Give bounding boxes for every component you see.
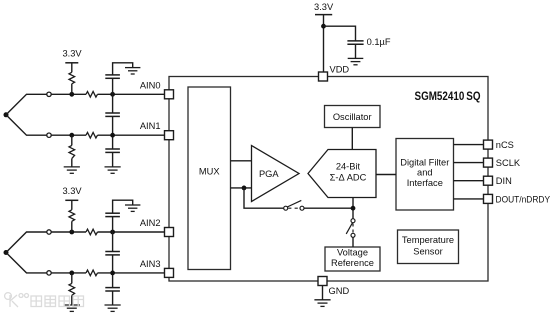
junction dot R-bias AIN0 bbox=[69, 92, 74, 97]
svg-text:AIN1: AIN1 bbox=[140, 121, 161, 131]
junction dot feedback node bbox=[242, 186, 247, 191]
open terminal circle AIN3 bbox=[47, 271, 51, 275]
capacitor C3 (AIN0-AIN1 differential) bbox=[105, 113, 120, 116]
junction dot R-bias AIN3 bbox=[69, 271, 74, 276]
ground (R8) bbox=[64, 305, 80, 311]
resistor R6 (bias to 3.3V) bbox=[69, 200, 75, 232]
capacitor C2 (AIN0 to gnd) bbox=[105, 75, 120, 78]
svg-text:Sensor: Sensor bbox=[413, 247, 442, 257]
svg-text:Interface: Interface bbox=[407, 178, 443, 188]
resistor R2 (bias to 3.3V) bbox=[69, 63, 75, 95]
ground (R4) bbox=[64, 167, 80, 173]
pin AIN2 bbox=[140, 218, 174, 237]
svg-text:3.3V: 3.3V bbox=[62, 48, 82, 58]
pin AIN1 bbox=[140, 121, 174, 140]
resistor R7 (series AIN3) bbox=[86, 270, 98, 276]
wire cap chain top to ground tap (upper) bbox=[113, 63, 133, 75]
wire AIN2 open circle to resistor bbox=[51, 231, 86, 233]
resistor R5 (series AIN2) bbox=[86, 229, 98, 235]
wire C4 to ground bbox=[112, 152, 114, 167]
wire SW1 to ADC bottom node bbox=[304, 207, 353, 209]
svg-text:SGM52410 SQ: SGM52410 SQ bbox=[415, 91, 481, 103]
pin SCLK bbox=[484, 158, 521, 168]
resistor R1 (series AIN0) bbox=[86, 92, 98, 98]
ground (GND pin) bbox=[314, 300, 330, 307]
wire ADC to Digital Filter bbox=[376, 174, 396, 176]
wire resistor to pin AIN3 bbox=[98, 272, 165, 274]
supply 3.3V (top, VDD) bbox=[314, 2, 334, 14]
wire AIN2 to C6 bbox=[112, 232, 114, 252]
wire GND pin to ground bbox=[322, 286, 324, 300]
wire tap to capacitor C1 bbox=[324, 26, 356, 41]
wire C7 to ground bbox=[112, 291, 114, 305]
wire resistor to pin AIN2 bbox=[98, 231, 165, 233]
junction dot R-bias AIN1 bbox=[69, 133, 74, 138]
wire Oscillator to ADC bbox=[351, 128, 353, 150]
IC outline U1 SGM52410SQ bbox=[169, 77, 488, 282]
wire AIN3 open circle to resistor bbox=[51, 272, 86, 274]
block MUX bbox=[188, 87, 231, 270]
ground (lower chain top) bbox=[125, 205, 140, 211]
resistor R8 (AIN3 to gnd) bbox=[69, 273, 75, 305]
wire input to AIN3 branch bbox=[6, 253, 47, 273]
capacitor C1 0.1uF bbox=[347, 37, 390, 47]
block Temperature Sensor bbox=[398, 230, 459, 264]
wire AIN3 to C7 bbox=[112, 273, 114, 288]
op-amp PGA bbox=[252, 146, 300, 202]
wire resistor to pin AIN0 bbox=[98, 93, 165, 95]
junction dot R-bias AIN2 bbox=[69, 230, 74, 235]
open terminal circle AIN2 bbox=[47, 230, 51, 234]
svg-text:Reference: Reference bbox=[331, 258, 374, 268]
pin DOUT/nDRDY bbox=[484, 194, 551, 204]
input terminal dot (AIN0/AIN1 pair) bbox=[4, 112, 9, 117]
svg-text:PGA: PGA bbox=[259, 169, 279, 179]
wire AIN1 open circle to resistor bbox=[51, 134, 86, 136]
junction dot cap chain AIN2 bbox=[110, 230, 115, 235]
capacitor C5 (AIN2 to gnd) bbox=[105, 213, 120, 216]
wire AIN0 open circle to resistor bbox=[51, 93, 86, 95]
wire capacitor C1 to ground bbox=[355, 44, 357, 58]
pin GND bbox=[318, 277, 349, 297]
wire AIN0 to C3 bbox=[112, 94, 114, 113]
svg-text:24-Bit: 24-Bit bbox=[336, 162, 361, 172]
svg-text:AIN3: AIN3 bbox=[140, 259, 161, 269]
svg-text:DOUT/nDRDY: DOUT/nDRDY bbox=[496, 194, 551, 204]
supply 3.3V (AIN2 bias) bbox=[62, 186, 82, 200]
svg-text:VDD: VDD bbox=[330, 65, 350, 75]
svg-text:MUX: MUX bbox=[199, 166, 220, 176]
wires Digital Filter to pins bbox=[454, 145, 484, 199]
ground (C4) bbox=[105, 167, 121, 173]
block Voltage Reference bbox=[325, 247, 380, 271]
wire AIN1 to C4 bbox=[112, 135, 114, 149]
svg-text:Voltage: Voltage bbox=[337, 247, 368, 257]
wire C2 to AIN0 bbox=[112, 78, 114, 94]
junction dot ADC bottom node bbox=[351, 206, 356, 211]
junction dot cap chain AIN3 bbox=[110, 271, 115, 276]
svg-text:Digital Filter: Digital Filter bbox=[400, 157, 449, 167]
wire input to AIN1 branch bbox=[6, 115, 47, 135]
wire ADC bottom bbox=[352, 198, 354, 219]
wire C6 to AIN3 bbox=[112, 255, 114, 273]
capacitor C4 (AIN1 to gnd) bbox=[105, 149, 120, 152]
switch SW2 (vertical) bbox=[346, 219, 355, 238]
wire resistor to pin AIN1 bbox=[98, 134, 165, 136]
svg-text:Oscillator: Oscillator bbox=[333, 112, 372, 122]
resistor R3 (series AIN1) bbox=[86, 132, 98, 138]
open terminal circle AIN1 bbox=[47, 133, 51, 137]
ground (C1) bbox=[348, 58, 364, 64]
wire cap chain top to ground tap (lower) bbox=[113, 200, 133, 213]
wire MUX to PGA (+) bbox=[231, 160, 252, 162]
svg-text:Temperature: Temperature bbox=[402, 235, 454, 245]
svg-text:DIN: DIN bbox=[496, 176, 512, 186]
svg-text:Σ-Δ ADC: Σ-Δ ADC bbox=[330, 172, 367, 182]
svg-text:3.3V: 3.3V bbox=[314, 2, 334, 12]
svg-text:SCLK: SCLK bbox=[496, 158, 521, 168]
pin AIN0 bbox=[140, 80, 174, 99]
wire C3 to AIN1 bbox=[112, 116, 114, 135]
wire input to AIN0 branch bbox=[6, 94, 47, 115]
wire PGA feedback to switch SW1 bbox=[244, 188, 284, 208]
junction dot cap chain AIN1 bbox=[110, 133, 115, 138]
svg-text:and: and bbox=[417, 168, 433, 178]
block Digital Filter and Interface bbox=[396, 139, 454, 211]
capacitor C6 (AIN2-AIN3 differential) bbox=[105, 252, 120, 255]
svg-text:AIN0: AIN0 bbox=[140, 80, 161, 90]
resistor R4 (AIN1 to gnd) bbox=[69, 135, 75, 167]
ground (upper chain top) bbox=[125, 68, 140, 74]
wire MUX to PGA (-) bbox=[231, 187, 252, 189]
svg-text:0.1µF: 0.1µF bbox=[367, 37, 391, 47]
switch SW1 (horizontal) bbox=[284, 200, 304, 210]
block Oscillator bbox=[325, 106, 381, 128]
wire input to AIN2 branch bbox=[6, 232, 47, 253]
pin AIN3 bbox=[140, 259, 174, 278]
open terminal circle AIN0 bbox=[47, 92, 51, 96]
junction dot VDD decoupling tap bbox=[321, 24, 326, 29]
svg-text:nCS: nCS bbox=[496, 140, 514, 150]
ADC 24-bit sigma-delta bbox=[308, 150, 376, 198]
wire C5 to AIN2 bbox=[112, 217, 114, 232]
pin DIN bbox=[484, 176, 512, 186]
pin nCS bbox=[484, 140, 514, 150]
ground (C7) bbox=[105, 305, 121, 311]
svg-text:3.3V: 3.3V bbox=[62, 186, 82, 196]
svg-text:GND: GND bbox=[329, 286, 350, 296]
wire 3.3V to VDD pin bbox=[323, 15, 325, 72]
junction dot cap chain AIN0 bbox=[110, 92, 115, 97]
supply 3.3V (AIN0 bias) bbox=[62, 48, 82, 62]
input terminal dot (AIN2/AIN3 pair) bbox=[4, 250, 9, 255]
svg-text:AIN2: AIN2 bbox=[140, 218, 161, 228]
pin VDD bbox=[319, 65, 350, 82]
capacitor C7 (AIN3 to gnd) bbox=[105, 288, 120, 291]
wire SW2 to Voltage Reference bbox=[352, 238, 354, 248]
watermark bbox=[5, 293, 84, 307]
